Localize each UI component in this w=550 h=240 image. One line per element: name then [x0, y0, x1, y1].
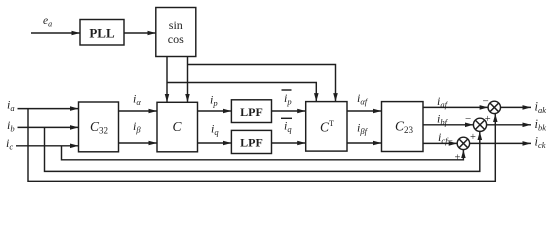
sign minus at S2 — [465, 113, 471, 125]
sign plus at S2 — [470, 132, 476, 143]
svg-text:PLL: PLL — [89, 26, 115, 41]
sign plus at S3 — [455, 153, 461, 164]
wire i_q C to LPF2 — [198, 142, 232, 144]
wire i_p C to LPF1 — [198, 110, 232, 112]
wire cos branch to CT — [188, 65, 336, 102]
wire sin vertical into C — [166, 57, 168, 103]
label i_a — [7, 98, 15, 114]
svg-text:C23: C23 — [395, 119, 414, 136]
label ibar_p — [284, 91, 292, 107]
label i_beta_f — [357, 121, 369, 137]
sign plus at S1 — [485, 114, 491, 125]
label i_af — [437, 94, 449, 110]
label i_q — [211, 122, 219, 138]
svg-text:+: + — [470, 132, 476, 143]
summer S1 circle-X — [488, 101, 500, 113]
svg-text:ick: ick — [535, 135, 546, 151]
svg-text:LPF: LPF — [240, 136, 263, 150]
block C23 transform — [382, 102, 424, 152]
wire i_b input — [18, 126, 79, 128]
block LPF2 low pass filter — [231, 130, 271, 153]
wire i_alpha_f CT to C23 — [347, 110, 382, 112]
wire output i_ak — [501, 106, 532, 108]
wire feedback i_b tap to S2 — [45, 127, 480, 171]
label ibar_q — [284, 119, 292, 135]
wire ibar_q LPF2 to CT — [272, 142, 306, 144]
sign minus at S1 — [483, 96, 489, 108]
block sin/cos generator — [156, 8, 196, 57]
wire output i_ck — [470, 142, 531, 144]
svg-text:ip: ip — [210, 93, 218, 109]
svg-text:iα: iα — [133, 92, 141, 108]
label i_beta — [133, 119, 141, 135]
wire feedback i_a tap to S1 — [28, 109, 495, 182]
block PLL U1 — [80, 20, 124, 46]
svg-text:CT: CT — [320, 119, 334, 135]
svg-text:ic: ic — [6, 136, 13, 152]
block CT inverse transform — [306, 102, 347, 152]
svg-text:iβ: iβ — [133, 119, 141, 135]
block C transform — [157, 102, 198, 152]
wire ibar_p LPF1 to CT — [272, 110, 306, 112]
label i_cf — [438, 130, 449, 146]
svg-text:iαf: iαf — [357, 91, 369, 107]
svg-text:iak: iak — [535, 100, 547, 116]
label i_b — [7, 118, 15, 134]
svg-text:iq: iq — [211, 122, 219, 138]
svg-text:ib: ib — [7, 118, 15, 134]
wire PLL to sin/cos — [124, 32, 156, 34]
svg-text:−: − — [465, 113, 471, 125]
summer S3 circle-X — [457, 137, 469, 149]
wire i_af C23 to summer S1 — [423, 106, 488, 108]
wire i_beta C32 to C — [119, 142, 158, 144]
label i_ck — [535, 135, 546, 151]
svg-text:+: + — [455, 153, 461, 164]
label i_bf — [437, 112, 449, 128]
svg-text:C32: C32 — [90, 119, 108, 136]
wire i_alpha C32 to C — [119, 110, 158, 112]
wire sin branch to CT — [167, 83, 316, 102]
svg-text:−: − — [447, 136, 453, 148]
svg-text:LPF: LPF — [240, 105, 263, 119]
wire output i_bk — [487, 124, 531, 126]
label i_c — [6, 136, 13, 152]
wire i_cf C23 to summer S3 — [423, 142, 457, 144]
sign minus at S3 — [447, 136, 453, 148]
label i_alpha — [133, 92, 141, 108]
label i_p — [210, 93, 218, 109]
svg-text:ip: ip — [284, 91, 292, 107]
summer S2 circle-X — [473, 118, 486, 131]
svg-text:ea: ea — [43, 15, 52, 29]
label i_ak — [535, 100, 547, 116]
svg-text:sin: sin — [169, 18, 183, 32]
label i_bk — [535, 117, 547, 133]
wire i_bf C23 to summer S2 — [423, 124, 473, 126]
svg-text:iβf: iβf — [357, 121, 369, 137]
svg-text:ibk: ibk — [535, 117, 547, 133]
wire cos vertical into C — [187, 57, 189, 103]
svg-text:iq: iq — [284, 119, 292, 135]
label i_alpha_f — [357, 91, 369, 107]
block C32 transform — [79, 102, 119, 152]
svg-text:C: C — [173, 119, 183, 134]
svg-text:cos: cos — [168, 32, 184, 46]
svg-text:ia: ia — [7, 98, 15, 114]
wire e_a input to PLL — [31, 32, 80, 34]
wire i_c input — [16, 145, 79, 147]
wire i_a input — [18, 108, 79, 110]
wire i_beta_f CT to C23 — [347, 142, 382, 144]
label e_a — [43, 15, 52, 29]
block LPF1 low pass filter — [231, 100, 271, 123]
wire feedback i_c tap to S3 — [62, 146, 464, 160]
